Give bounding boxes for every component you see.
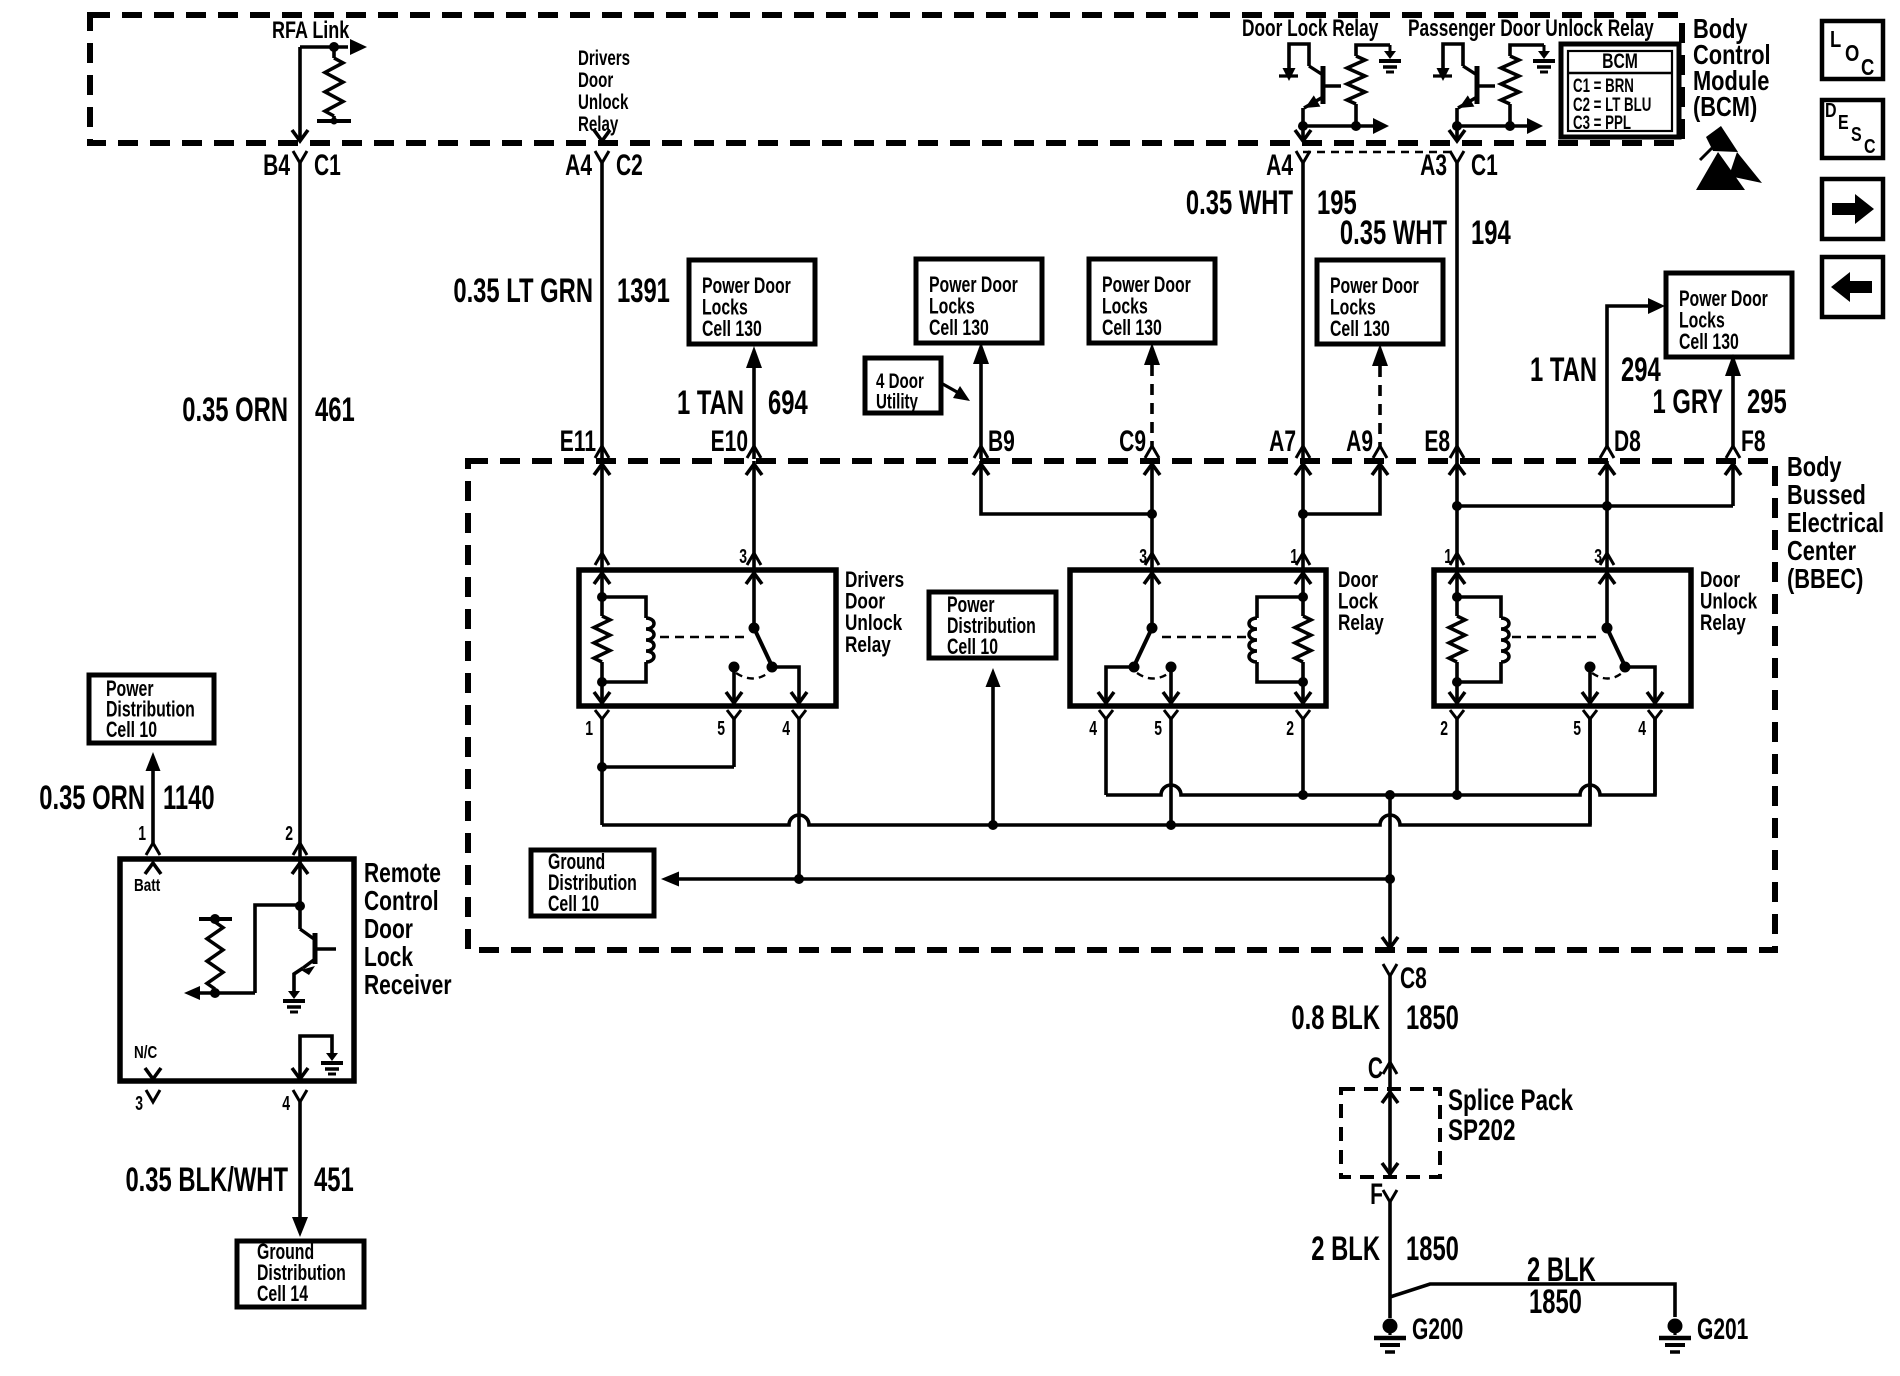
receiver pin4 internal loop	[300, 1036, 332, 1081]
connector C9 at BBEC top	[1145, 446, 1159, 458]
wire circuit 1140 up to Power Distribution	[151, 771, 155, 843]
arrow into right Power Door Locks box	[1648, 298, 1665, 314]
connector receiver pin 4	[293, 1090, 307, 1102]
relay K1 pin 1 connector	[595, 710, 609, 719]
svg-text:1: 1	[585, 716, 593, 739]
connector F8 at BBEC top	[1726, 446, 1740, 458]
receiver internal wire to transistor	[255, 905, 298, 993]
wire relay K3 pin5 drop	[1588, 719, 1592, 825]
connector C8	[1383, 964, 1397, 976]
svg-text:Relay: Relay	[578, 111, 619, 135]
relay K1 pin5 wire	[732, 667, 736, 706]
connector E8 at BBEC top	[1450, 446, 1464, 458]
inter-connector dashed link A4-A3	[1303, 151, 1457, 154]
relay K3 resistor	[1449, 616, 1465, 662]
relay K3 top pin arrows	[1449, 573, 1465, 584]
svg-text:Door: Door	[578, 67, 613, 91]
arrow 4 Door Utility pointer	[941, 383, 957, 392]
relay K3 top pin connectors	[1450, 553, 1464, 565]
relay K1 coil loop	[602, 597, 646, 618]
Splice Pack SP202 dashed box	[1341, 1089, 1440, 1177]
relay K2 coil loop	[1257, 597, 1303, 618]
connector A4 (right) at BCM	[1296, 151, 1310, 163]
arrow into BCM border at A4/C2	[594, 130, 610, 141]
svg-text:S: S	[1851, 123, 1862, 145]
door lock relay driver: arrow into BCM border	[1295, 130, 1311, 141]
svg-text:B9: B9	[988, 426, 1015, 458]
passenger door unlock relay driver: transistor emitter diagonal	[1463, 66, 1477, 75]
relay K3 coil bottom junction	[1452, 677, 1462, 687]
relay K3 resistor-to-bottom wire	[1455, 662, 1459, 706]
wire RFA link top horizontal	[300, 45, 348, 49]
svg-text:O: O	[1845, 41, 1859, 66]
svg-text:Cell 130: Cell 130	[929, 317, 989, 341]
relay K1 coil bottom junction	[597, 677, 607, 687]
receiver internal rail junction	[210, 914, 220, 924]
wire E11 to drivers relay pin (in BBEC)	[600, 461, 604, 570]
wire B4 drop inside BCM	[298, 47, 302, 140]
svg-text:Receiver: Receiver	[364, 970, 452, 1001]
svg-text:5: 5	[1573, 716, 1581, 739]
connector D8 at BBEC top	[1600, 446, 1614, 458]
relay K1 pin 4 connector	[792, 710, 806, 719]
receiver resistor bottom junction	[210, 988, 220, 998]
relay K1 switch common wire	[752, 570, 756, 628]
door lock relay driver: transistor base lead	[1323, 84, 1341, 87]
svg-text:Batt: Batt	[134, 876, 161, 895]
svg-text:SP202: SP202	[1448, 1113, 1516, 1147]
svg-text:2 BLK: 2 BLK	[1311, 1230, 1380, 1268]
door lock relay driver: transistor emitter diagonal	[1309, 66, 1323, 75]
svg-text:D8: D8	[1614, 426, 1641, 458]
icon box LOC	[1822, 21, 1883, 79]
svg-text:F8: F8	[1741, 426, 1765, 458]
wire circuit 195 (A4 to A7)	[1301, 163, 1305, 461]
svg-text:1 GRY: 1 GRY	[1652, 383, 1723, 421]
relay K3 switch pivot	[1602, 623, 1613, 634]
arrow into BBEC at C9	[1144, 464, 1160, 475]
door lock relay driver: pull-up resistor	[1347, 56, 1365, 104]
svg-text:Relay: Relay	[845, 633, 891, 658]
wire E8 to door unlock relay pin 1	[1455, 461, 1459, 570]
receiver collector junction	[295, 901, 305, 911]
svg-text:Drivers: Drivers	[578, 45, 630, 69]
destination box Power Door Locks Cell 130 (above E10)	[689, 260, 815, 344]
receiver transistor ground	[288, 991, 300, 999]
connector A4/C2 at BCM	[595, 151, 609, 163]
svg-text:694: 694	[768, 384, 808, 422]
wire A9 internal with corner	[1303, 461, 1380, 514]
junction K3 pin2 on lock bus	[1452, 790, 1462, 800]
wire relay K3 pin4 drop	[1653, 719, 1657, 795]
relay K3 switch contact (pin 4 side)	[1620, 662, 1631, 673]
arrow into splice pack (top)	[1382, 1092, 1398, 1103]
junction C8 on lock bus	[1385, 790, 1395, 800]
wire circuit 1391 (A4/C2 to E11)	[600, 163, 604, 461]
passenger door unlock relay driver: transistor collector diagonal with arrow	[1458, 97, 1477, 108]
branch wire to G201	[1390, 1284, 1675, 1317]
resistor RFA link termination	[325, 58, 343, 116]
connector B4/C1 at BCM	[293, 151, 307, 163]
relay K2 switch pivot	[1147, 623, 1158, 634]
relay K2 switch contact (pin 5 side)	[1166, 662, 1177, 673]
relay K1 switch blade	[754, 628, 771, 664]
relay K3 coil supply wire	[1455, 570, 1459, 616]
wire F8 internal	[1731, 461, 1735, 506]
svg-text:Center: Center	[1787, 535, 1856, 566]
junction D8 rail	[1602, 501, 1612, 511]
svg-text:D: D	[1825, 99, 1837, 121]
bus lock (y=795)	[1104, 719, 1108, 795]
svg-text:Cell 10: Cell 10	[106, 719, 157, 743]
receiver internal arrow left	[184, 986, 200, 1000]
svg-text:BCM: BCM	[1602, 49, 1638, 73]
junction K2 pin2 on lock bus	[1298, 790, 1308, 800]
connector E10 at BBEC top	[747, 446, 761, 458]
relay K3 pin5 wire	[1588, 667, 1592, 706]
relay K1 Drivers Door Unlock Relay: box	[579, 570, 836, 706]
relay K2 dashed actuation link	[1162, 636, 1246, 638]
door lock relay driver: resistor bottom junction dot	[1351, 121, 1361, 131]
box Ground Distribution Cell 10 (BBEC)	[531, 850, 654, 916]
connector A7 at BBEC top	[1296, 446, 1310, 458]
svg-text:4: 4	[1638, 716, 1646, 739]
wire relay K2 pin2 drop	[1301, 719, 1305, 795]
passenger door unlock relay driver: resistor bottom junction dot	[1505, 121, 1515, 131]
svg-text:A4: A4	[565, 150, 592, 182]
svg-text:1140: 1140	[163, 779, 215, 817]
receiver pin4 border arrow	[292, 1068, 308, 1079]
svg-text:Locks: Locks	[702, 296, 748, 320]
passenger door unlock relay driver: transistor Q base bar	[1475, 66, 1480, 104]
wire circuit 194 (A3/C1 to E8)	[1455, 163, 1459, 461]
door lock relay driver: output arrow right	[1356, 124, 1374, 128]
junction K2 pin5 on unlock bus	[1166, 820, 1176, 830]
svg-text:Door Lock Relay: Door Lock Relay	[1242, 15, 1379, 41]
arrow into BBEC at F8	[1725, 464, 1741, 475]
door lock relay driver: transistor Q base bar	[1321, 66, 1326, 104]
svg-text:Body: Body	[1787, 451, 1842, 482]
svg-text:2: 2	[285, 821, 293, 844]
svg-text:0.35 LT GRN: 0.35 LT GRN	[453, 272, 593, 310]
relay K2 pin 4 connector	[1099, 710, 1113, 719]
wire into splice pack	[1388, 1062, 1392, 1177]
wire B9 up to Power Door Locks	[979, 364, 983, 459]
bus unlock corner at K3 pin5	[1580, 719, 1590, 825]
receiver pin4 ground symbol	[326, 1053, 338, 1061]
arrow into BCM border at B4	[292, 130, 308, 141]
connector C at splice pack	[1383, 1062, 1397, 1074]
relay K2 resistor	[1295, 616, 1311, 662]
junction C8 / ground bus	[1385, 874, 1395, 884]
relay K1 resistor-to-bottom wire	[600, 662, 604, 706]
svg-text:3: 3	[135, 1091, 143, 1114]
wire circuit 1850 (0.8 BLK)	[1388, 976, 1392, 1062]
junction B9/C9	[1147, 509, 1157, 519]
door lock relay driver: transistor collector diagonal with arrow	[1304, 97, 1323, 108]
BCM table title separator	[1568, 72, 1672, 75]
junction K1 pin4 on ground bus	[794, 874, 804, 884]
svg-text:(BCM): (BCM)	[1693, 91, 1757, 122]
relay K1 coil supply wire	[600, 570, 604, 616]
relay K3 Door Unlock Relay: box	[1434, 570, 1691, 706]
passenger door unlock relay driver: pull-up resistor	[1501, 56, 1519, 104]
svg-text:Cell 130: Cell 130	[1330, 318, 1390, 342]
destination box Power Door Locks Cell 130 (right)	[1666, 273, 1792, 357]
svg-text:Cell 14: Cell 14	[257, 1283, 308, 1307]
arrow into BBEC at D8	[1599, 464, 1615, 475]
relay K3 bottom pin arrows	[1449, 692, 1465, 703]
svg-text:B4: B4	[263, 150, 290, 182]
relay K3 pin 5 connector	[1583, 710, 1597, 719]
Body Control Module (BCM) dashed enclosure	[90, 15, 1682, 143]
svg-text:C9: C9	[1119, 426, 1146, 458]
arrow into BBEC at A9	[1372, 464, 1388, 475]
svg-text:5: 5	[717, 716, 725, 739]
relay K3 switch blade	[1607, 628, 1624, 664]
receiver transistor Q: base lead	[315, 947, 336, 950]
svg-text:Power Door: Power Door	[702, 275, 791, 299]
relay K2 contact-to-pin4 wire	[1106, 667, 1134, 706]
BCM table inner border	[1568, 51, 1672, 131]
relay K3 coil top junction	[1452, 592, 1462, 602]
svg-text:Electrical: Electrical	[1787, 507, 1884, 538]
svg-text:C: C	[1861, 55, 1874, 80]
relay K1 switch pivot	[749, 623, 760, 634]
connector F	[1383, 1190, 1397, 1202]
svg-text:5: 5	[1154, 716, 1162, 739]
passenger door unlock relay driver: collector wire	[1455, 108, 1459, 140]
svg-text:E8: E8	[1424, 426, 1450, 458]
passenger door unlock relay driver: transistor base lead	[1477, 84, 1495, 87]
svg-text:1: 1	[138, 821, 146, 844]
wire relay K2 pin5 drop	[1169, 719, 1173, 825]
svg-text:A7: A7	[1269, 426, 1296, 458]
svg-text:G201: G201	[1697, 1314, 1748, 1346]
box Power Distribution Cell 10 (left)	[89, 675, 214, 743]
passenger door unlock relay driver: arrow into BCM border	[1449, 130, 1465, 141]
wire C8 vertical in BBEC	[1388, 795, 1392, 947]
svg-text:Power Door: Power Door	[1330, 275, 1419, 299]
svg-text:2: 2	[1440, 716, 1448, 739]
connector receiver pin 1	[146, 843, 160, 855]
wire E8-D8-F8 rail	[1457, 504, 1733, 508]
relay K2 switch contact (pin 4 side)	[1129, 662, 1140, 673]
wire C9 dashed up to Power Door Locks	[1150, 365, 1154, 448]
svg-text:1850: 1850	[1406, 999, 1459, 1037]
relay K1 top pin connectors	[595, 553, 609, 565]
connector receiver pin 3 (N/C)	[146, 1090, 160, 1102]
relay K2 Door Lock Relay: box	[1070, 570, 1326, 706]
wire circuit 295 (F8 up)	[1731, 376, 1735, 448]
svg-text:1 TAN: 1 TAN	[1530, 351, 1597, 389]
svg-text:A3: A3	[1420, 150, 1447, 182]
relay K3 pin 2 connector	[1450, 710, 1464, 719]
svg-text:C2: C2	[616, 150, 643, 182]
svg-text:451: 451	[314, 1161, 354, 1199]
box Remote Control Door Lock Receiver	[120, 859, 354, 1081]
arrow out of splice pack (bottom)	[1382, 1163, 1398, 1174]
relay K3 switch contact (pin 5 side)	[1585, 662, 1596, 673]
relay K3 switch common wire	[1605, 570, 1609, 628]
svg-text:Lock: Lock	[364, 942, 413, 973]
relay K1 dashed throw arc	[736, 673, 768, 679]
arrow into BBEC at A7	[1295, 464, 1311, 475]
svg-text:A9: A9	[1346, 426, 1373, 458]
arrow out of BBEC at C8	[1382, 937, 1398, 948]
relay K2 coil bottom junction	[1298, 677, 1308, 687]
svg-text:461: 461	[315, 391, 355, 429]
relay K2 dashed throw arc	[1137, 673, 1169, 679]
svg-text:Bussed: Bussed	[1787, 479, 1866, 510]
receiver pin3 border arrow	[145, 1068, 161, 1079]
receiver transistor Q: emitter with arrow	[303, 959, 315, 968]
door lock relay driver: bottom rail to resistor	[1303, 124, 1356, 128]
svg-text:Power Door: Power Door	[1102, 274, 1191, 298]
wire circuit 1850 (2 BLK) to G200	[1388, 1202, 1392, 1318]
wire D8 to door unlock relay pin 3	[1605, 461, 1609, 570]
svg-text:Relay: Relay	[1700, 611, 1746, 636]
connector B9 at BBEC top	[974, 446, 988, 458]
door lock relay driver: collector junction dot	[1298, 121, 1308, 131]
destination box Power Door Locks Cell 130 (above A9)	[1317, 260, 1443, 344]
icon box right-arrow	[1822, 179, 1883, 239]
connector A9 at BBEC top	[1373, 446, 1387, 458]
arrow into BBEC at B9	[973, 464, 989, 475]
relay K1 contact-to-pin4 wire	[772, 667, 799, 706]
arrow into BBEC at E8	[1449, 464, 1465, 475]
wire relay K1 pin5 drop	[732, 719, 736, 767]
svg-text:C1 = BRN: C1 = BRN	[1573, 76, 1634, 97]
svg-text:1850: 1850	[1406, 1230, 1459, 1268]
svg-text:C1: C1	[1471, 150, 1498, 182]
arrow into Ground Distribution box	[292, 1217, 308, 1237]
svg-text:Door: Door	[364, 914, 413, 945]
receiver internal rail bar	[199, 917, 232, 921]
svg-text:1 TAN: 1 TAN	[677, 384, 744, 422]
relay K3 dashed throw arc	[1592, 673, 1622, 679]
svg-text:Cell 130: Cell 130	[702, 318, 762, 342]
svg-text:C: C	[1864, 135, 1876, 157]
wire relay K1 pin1 drop	[600, 719, 604, 825]
passenger door unlock relay driver: ground symbol	[1543, 45, 1546, 51]
svg-text:(BBEC): (BBEC)	[1787, 563, 1863, 594]
svg-text:A4: A4	[1266, 150, 1293, 182]
passenger door unlock relay driver: bottom rail to resistor	[1457, 124, 1510, 128]
svg-text:C: C	[1368, 1053, 1383, 1085]
svg-text:Locks: Locks	[929, 295, 975, 319]
svg-text:0.35 BLK/WHT: 0.35 BLK/WHT	[125, 1161, 288, 1199]
svg-text:L: L	[1830, 27, 1841, 52]
wire C9 to door lock relay pin 3	[1150, 461, 1154, 570]
svg-text:C3 = PPL: C3 = PPL	[1573, 113, 1631, 134]
junction E8 rail	[1452, 501, 1462, 511]
relay K1 dashed actuation link	[660, 636, 744, 638]
receiver pin1 internal arrow	[145, 863, 161, 874]
svg-text:Locks: Locks	[1102, 295, 1148, 319]
Body Bussed Electrical Center (BBEC) dashed enclosure	[468, 461, 1775, 950]
receiver transistor Q: collector	[298, 906, 302, 929]
svg-text:Locks: Locks	[1330, 296, 1376, 320]
junction A7/A9	[1298, 509, 1308, 519]
passenger door unlock relay driver: output arrow right	[1510, 124, 1528, 128]
relay K2 switch common wire	[1150, 570, 1154, 628]
svg-text:C1: C1	[314, 150, 341, 182]
svg-text:0.8 BLK: 0.8 BLK	[1291, 999, 1380, 1037]
svg-text:Power Door: Power Door	[929, 274, 1018, 298]
svg-text:1850: 1850	[1529, 1283, 1582, 1321]
connector E11 at BBEC top	[595, 446, 609, 458]
svg-text:4: 4	[1089, 716, 1097, 739]
relay K2 pin1-resistor wire	[1301, 570, 1305, 616]
relay K2 top pin arrows	[1144, 573, 1160, 584]
svg-text:Power Door: Power Door	[1679, 288, 1768, 312]
svg-text:1391: 1391	[617, 272, 670, 310]
svg-text:E11: E11	[560, 426, 596, 458]
relay K1 pin 5 connector	[727, 710, 741, 719]
junction power-dist branch	[988, 820, 998, 830]
wire A7 to door lock relay pin 1	[1301, 461, 1305, 570]
arrow RFA link pointing right	[350, 39, 367, 55]
arrow into BBEC at E10	[746, 464, 762, 475]
relay K2 coil top junction	[1298, 592, 1308, 602]
svg-text:Control: Control	[364, 886, 439, 917]
bus pin1-pin5 (K1)	[602, 765, 734, 769]
wire circuit 294 (D8 L-shape)	[1607, 306, 1648, 448]
receiver pin2 internal arrow	[292, 863, 308, 874]
svg-text:4: 4	[282, 1091, 290, 1114]
receiver transistor Q: base bar	[313, 933, 318, 964]
receiver pin2 internal wire	[298, 859, 302, 906]
door lock relay driver: collector wire	[1301, 108, 1305, 140]
wire E10 to drivers relay pin 3 (in BBEC)	[752, 461, 756, 570]
svg-text:Cell 130: Cell 130	[1102, 317, 1162, 341]
svg-text:0.35 WHT: 0.35 WHT	[1340, 214, 1447, 252]
relay K2 pin 5 connector	[1164, 710, 1178, 719]
door lock relay driver: ground symbol	[1389, 45, 1392, 51]
svg-text:Locks: Locks	[1679, 309, 1725, 333]
svg-text:Cell 130: Cell 130	[1679, 331, 1739, 355]
ESD sensitivity symbol	[1696, 152, 1745, 190]
svg-text:E: E	[1838, 111, 1849, 133]
svg-text:Remote: Remote	[364, 858, 441, 889]
destination box Power Door Locks Cell 130 (above C9)	[1089, 259, 1215, 343]
svg-text:Utility: Utility	[876, 389, 919, 413]
destination box Power Door Locks Cell 130 (above B9)	[916, 259, 1042, 343]
svg-text:E10: E10	[711, 426, 748, 458]
relay K2 switch blade	[1135, 628, 1152, 664]
bus unlock (y=825)	[602, 815, 1580, 825]
relay K1 bottom pin arrows	[594, 692, 610, 703]
relay K2 pin5 wire	[1169, 667, 1173, 706]
terminator bar under RFA resistor	[317, 119, 351, 123]
wire B9 internal with corner	[981, 461, 1152, 514]
receiver internal resistor	[207, 922, 223, 989]
relay K3 dashed actuation link	[1512, 636, 1598, 638]
connector A3/C1 at BCM	[1450, 151, 1464, 163]
box 4 Door Utility	[865, 358, 941, 413]
svg-text:Cell 10: Cell 10	[947, 636, 998, 660]
wire circuit 694 (E10 up)	[752, 368, 756, 459]
ground G200 symbol	[1383, 1319, 1398, 1334]
relay K1 coil top junction	[597, 592, 607, 602]
svg-text:2: 2	[1286, 716, 1294, 739]
icon box left-arrow	[1822, 257, 1883, 317]
svg-text:RFA Link: RFA Link	[272, 18, 349, 44]
door lock relay driver: emitter hook wire	[1289, 44, 1309, 72]
svg-text:Cell 10: Cell 10	[548, 893, 599, 917]
wire A9 dashed up to Power Door Locks	[1378, 366, 1382, 448]
